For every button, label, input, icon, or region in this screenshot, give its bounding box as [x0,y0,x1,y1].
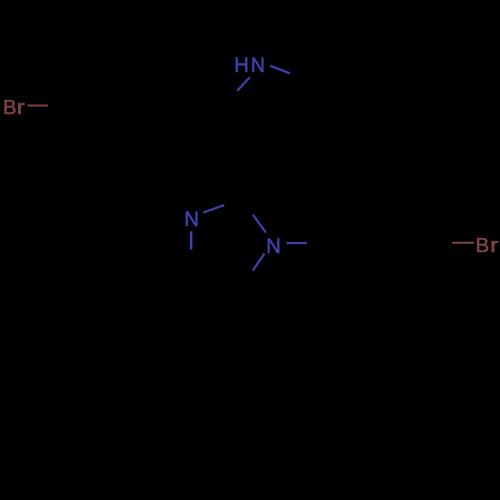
bond N2-C2ring (visible half near N2, up-right) [203,205,224,213]
svg-text:r: r [490,234,498,257]
bond Br1-C6 (visible half near Br1) [28,105,49,107]
svg-text:N: N [184,207,199,231]
bond N1-C5 (visible half near N1, down-right) [270,66,290,74]
bond N1-C2 (visible half near N1, down-left) [237,77,250,91]
bond N3-C5ring (visible half near N3, down-left) [253,253,265,270]
svg-text:r: r [17,96,25,119]
svg-text:N: N [251,53,265,77]
svg-text:B: B [475,234,489,257]
bond Br2-C4' (visible half near Br2) [452,242,474,244]
svg-text:B: B [3,96,17,119]
svg-text:H: H [234,53,249,77]
bond N3-C1' aryl (visible half near N3, right) [287,242,307,244]
bond N2-C4ring (visible half near N2, down) [190,231,193,249]
svg-text:N: N [266,234,281,258]
bond C2ring-N3 (visible half near N3, from upper-left) [253,215,266,233]
